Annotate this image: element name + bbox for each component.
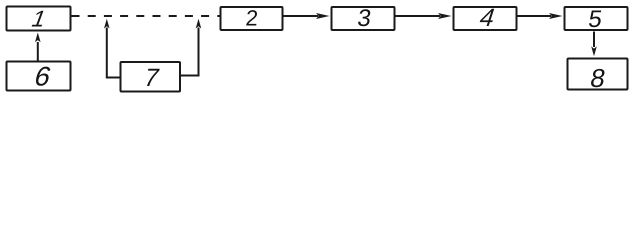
wire 5 to 8: [593, 32, 595, 48]
wire 7 right branch to dashed line: [181, 28, 199, 76]
block 5: [565, 7, 628, 30]
label 8: [588, 63, 608, 93]
arrowhead into 3: [316, 13, 330, 19]
svg-text:2: 2: [245, 5, 259, 30]
arrowhead into 5: [549, 13, 563, 19]
dashed wire 1 to 2: [72, 15, 220, 17]
label 1: [28, 7, 50, 32]
block 2: [221, 7, 283, 30]
wire 3 to 4: [396, 15, 441, 17]
wire 7 left branch to dashed line: [107, 28, 120, 78]
arrowhead into 8: [591, 46, 597, 56]
label 5: [587, 6, 604, 33]
label 2: [245, 5, 259, 30]
block 3: [332, 7, 395, 30]
wire 6 to 1: [37, 42, 39, 61]
block 7: [121, 62, 181, 92]
arrowhead right branch: [196, 19, 202, 29]
arrowhead into 4: [438, 13, 452, 19]
label 7: [141, 65, 162, 93]
wire 4 to 5: [518, 15, 552, 17]
label 4: [476, 5, 499, 32]
arrowhead left branch: [104, 19, 110, 29]
block 8: [568, 59, 628, 90]
block 4: [454, 7, 517, 30]
label 6: [31, 61, 54, 91]
arrowhead into 1: [35, 33, 41, 43]
block 6: [7, 62, 71, 91]
block 1: [7, 7, 71, 31]
label 3: [356, 5, 373, 32]
wire 2 to 3: [284, 15, 319, 17]
